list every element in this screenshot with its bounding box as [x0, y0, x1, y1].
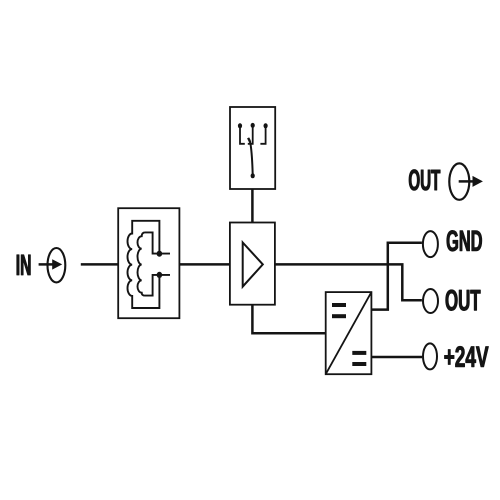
wire: power supply to GND terminal: [371, 243, 422, 310]
power supply diagonal: [326, 292, 372, 374]
amplifier triangle: [243, 243, 263, 287]
wire: power supply to +24V terminal: [371, 356, 422, 359]
power supply U2 box: [326, 292, 372, 374]
wire: amplifier output to OUT terminal: [275, 264, 422, 300]
wire: transformer to amplifier: [179, 263, 230, 266]
switch contact dot middle: [251, 123, 255, 128]
label GND: [447, 230, 482, 251]
transformer secondary winding: [138, 232, 171, 295]
switch right contact: [260, 128, 265, 144]
switch S1 box: [230, 107, 275, 189]
wire: amplifier to power supply: [252, 305, 325, 334]
wire: IN terminal to transformer: [81, 263, 118, 266]
output port OUT (top right circle with arrow): [449, 163, 483, 199]
label +24V: [445, 346, 489, 367]
junction dot lower tap: [157, 272, 163, 278]
transformer primary winding: [127, 221, 159, 308]
power supply DC bar upper 2: [332, 314, 346, 318]
terminal OUT circle: [423, 289, 438, 313]
terminal GND circle: [423, 231, 438, 257]
switch lever tip: [248, 138, 250, 142]
junction dot upper tap: [157, 251, 163, 257]
power supply DC bar lower 2: [352, 362, 366, 366]
switch left contact: [240, 128, 245, 144]
switch contact dot left: [238, 123, 242, 128]
switch lever: [249, 138, 253, 175]
amplifier A1 box: [230, 223, 275, 305]
wire: switch to amplifier: [251, 189, 254, 223]
label OUT: [446, 290, 481, 311]
terminal IN (input port circle with arrow): [39, 248, 66, 282]
label IN: [17, 255, 31, 275]
switch pole dot: [251, 173, 255, 178]
switch middle contact: [248, 127, 253, 145]
switch contact dot right: [264, 123, 268, 128]
transformer T1 outline box: [118, 208, 179, 318]
power supply DC bar lower 1: [352, 351, 366, 355]
terminal +24V circle: [423, 343, 437, 369]
power supply DC bar upper 1: [332, 303, 346, 307]
label OUT: [409, 170, 440, 191]
